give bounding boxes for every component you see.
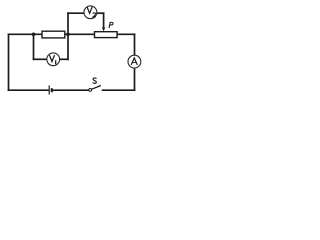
wire V2 branch top right horizontal xyxy=(97,12,104,14)
label S xyxy=(93,78,97,83)
wire V1 branch left vertical xyxy=(33,34,35,59)
wire bottom left (to battery) xyxy=(9,89,49,91)
ammeter A xyxy=(128,55,141,68)
wire middle row left xyxy=(9,33,43,35)
wire V1 branch bottom left xyxy=(34,58,47,60)
battery cell xyxy=(49,85,52,94)
switch S xyxy=(89,86,101,92)
wire V1 branch bottom right xyxy=(60,58,68,60)
wiper arrowhead P xyxy=(102,28,105,32)
node junction dot right (resistor right / V1-V2 tap) xyxy=(66,33,70,37)
wire V2 branch top left horizontal xyxy=(68,12,84,14)
voltmeter V1 xyxy=(47,53,60,66)
wire rheostat to right corner xyxy=(117,33,134,35)
wire right vertical upper (to ammeter) xyxy=(134,34,136,55)
node junction dot left (resistor left / V1 tap) xyxy=(32,33,36,37)
wire bottom middle (battery to switch) xyxy=(53,89,89,91)
wire right vertical lower (ammeter to bottom) xyxy=(134,68,136,90)
wire left vertical xyxy=(8,34,10,90)
rheostat (box) xyxy=(95,32,118,38)
label P (italic) xyxy=(109,22,113,28)
wire bottom right (switch to ammeter) xyxy=(103,89,135,91)
wire resistor to rheostat xyxy=(65,33,95,35)
wire shared vertical node (V1 up through junction to V2) xyxy=(67,13,69,59)
voltmeter V2 xyxy=(84,6,97,19)
wire wiper arrow stem xyxy=(103,13,105,28)
resistor R (box) xyxy=(42,31,65,38)
